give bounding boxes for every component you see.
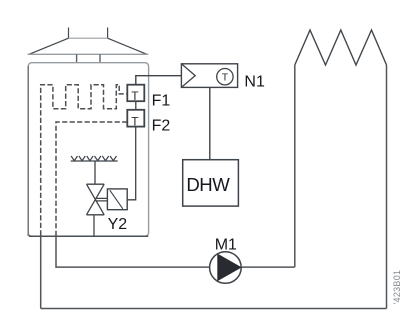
svg-text:Y2: Y2 xyxy=(108,216,128,233)
pipe: pump line xyxy=(56,236,295,267)
roof bottom edge xyxy=(28,53,149,55)
tank bottom pipe line xyxy=(29,235,148,237)
pump M1 rotor triangle xyxy=(218,254,241,280)
wire F1 to F2 xyxy=(135,101,137,110)
N1 chevron xyxy=(181,64,195,88)
pipe: zigzag left leg down xyxy=(294,65,296,267)
spray bar v-marks xyxy=(71,156,116,161)
wire N1 to DHW xyxy=(209,87,211,159)
svg-text:F2: F2 xyxy=(152,117,171,134)
DHW box xyxy=(183,160,239,206)
roof leg right xyxy=(99,54,101,62)
svg-text:T: T xyxy=(222,72,229,84)
actuator box of Y2 xyxy=(107,189,127,210)
svg-text:DHW: DHW xyxy=(186,174,230,195)
svg-text:N1: N1 xyxy=(244,74,265,91)
dashed return line to F2 xyxy=(56,122,127,236)
svg-text:T: T xyxy=(131,114,139,128)
stem from spray bar to valve xyxy=(94,161,96,184)
load zigzag xyxy=(295,30,387,65)
spray bar xyxy=(71,160,118,162)
roof leg left xyxy=(76,54,78,62)
roof top edge xyxy=(69,37,108,39)
controller N1 box xyxy=(181,64,237,88)
pump M1 circle xyxy=(210,252,242,284)
svg-text:F1: F1 xyxy=(152,92,171,109)
sensor F1 box xyxy=(127,85,144,102)
dashed coil (meander) to F1 xyxy=(41,85,128,236)
N1 temperature circle xyxy=(217,69,233,85)
roof tick left xyxy=(68,28,70,39)
pipe: bottom return line xyxy=(41,308,387,310)
valve Y2 body (bowtie) xyxy=(87,184,105,215)
svg-text:T: T xyxy=(131,89,139,103)
roof left slope xyxy=(29,38,69,54)
pipe: tank to bottom loop (left riser) xyxy=(40,236,42,308)
wire actuator to F2 xyxy=(127,127,136,200)
storage tank outline xyxy=(28,63,148,237)
roof tick right xyxy=(107,28,109,39)
valve outlet stem xyxy=(93,215,95,236)
valve-actuator double link xyxy=(97,198,108,201)
roof right slope xyxy=(108,38,147,54)
sensor F2 box xyxy=(127,110,144,127)
wire F1 up to N1 xyxy=(136,76,182,85)
svg-text:'423B01: '423B01 xyxy=(392,270,402,305)
pipe: right riser xyxy=(386,65,388,309)
svg-text:M1: M1 xyxy=(215,237,237,254)
actuator diagonal xyxy=(110,190,123,209)
